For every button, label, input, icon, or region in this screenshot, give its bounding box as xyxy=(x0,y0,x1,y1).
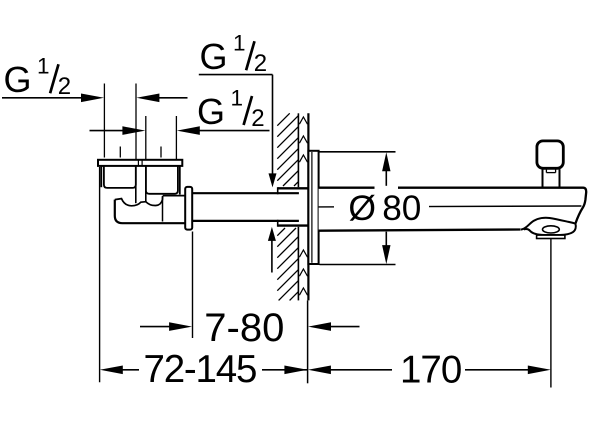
extension line left inlet left edge xyxy=(103,84,105,158)
svg-text:80: 80 xyxy=(382,189,421,228)
sleeve left end caps xyxy=(277,187,279,194)
leader underline G 1/2 top center xyxy=(199,74,273,76)
fitting flange xyxy=(98,160,182,166)
diverter knob stem xyxy=(542,169,544,188)
up arrow at sleeve bottom xyxy=(268,227,276,241)
wall sleeve top edge xyxy=(278,187,308,189)
wall surface extension line (to dimension) xyxy=(307,300,309,383)
dim left inlet: leader line from G 1/2 top left xyxy=(2,97,82,99)
wall xyxy=(277,113,298,300)
svg-text:2: 2 xyxy=(58,73,71,100)
union nut xyxy=(185,187,192,230)
right inlet centerline tick xyxy=(160,147,162,158)
dim left inlet left-pointing arrow xyxy=(136,94,159,103)
dim 7-80 left tail xyxy=(140,326,172,328)
extension line left inlet right edge xyxy=(135,84,137,160)
dim 80 top extension line xyxy=(320,151,396,153)
svg-text:1: 1 xyxy=(233,31,246,56)
fitting upper right cup xyxy=(146,166,178,194)
spout inner taper line xyxy=(319,205,582,208)
dim right inlet left-pointing arrow xyxy=(177,126,200,135)
extension line right inlet left edge xyxy=(145,116,147,160)
svg-text:2: 2 xyxy=(254,50,267,77)
dim 7-80 left-pointing arrow xyxy=(308,322,331,331)
elbow outlet vertical joint xyxy=(162,196,164,221)
svg-text:G: G xyxy=(197,91,225,132)
elbow lower body xyxy=(115,200,185,224)
spout body outline xyxy=(319,188,587,235)
wall tile layer chevrons xyxy=(299,117,307,295)
dim right inlet tail line left xyxy=(90,130,125,132)
escutcheon flange xyxy=(308,151,318,264)
svg-text:1: 1 xyxy=(37,54,50,79)
dim 170 right arrow (pointing right) xyxy=(528,366,551,375)
dim left inlet right-pointing arrow xyxy=(81,94,104,103)
aerator face bar xyxy=(537,235,565,238)
svg-text:Ø: Ø xyxy=(348,188,376,228)
svg-text:72-145: 72-145 xyxy=(144,348,257,391)
svg-text:170: 170 xyxy=(400,349,461,392)
escutcheon inner line xyxy=(311,152,313,263)
svg-text:G: G xyxy=(200,36,228,77)
svg-text:7-80: 7-80 xyxy=(204,306,284,350)
dim 80 bottom extension line xyxy=(320,264,396,266)
up arrow shaft xyxy=(271,239,273,273)
svg-text:G: G xyxy=(4,59,32,100)
dim right inlet right-pointing arrow xyxy=(122,126,145,135)
dim 7-80 right-pointing arrow xyxy=(169,322,192,331)
dim 170 right extension line (aerator centerline) xyxy=(550,239,552,388)
wall front surface line xyxy=(307,113,309,300)
aerator housing outline xyxy=(521,218,576,235)
left inlet centerline tick xyxy=(119,147,121,158)
leader down arrow at sleeve top xyxy=(269,173,277,187)
svg-text:2: 2 xyxy=(251,105,264,132)
dim 80 upper arrow xyxy=(382,152,390,171)
dim 72-145 right segment xyxy=(262,369,308,371)
pipe to wall bottom edge xyxy=(192,220,299,222)
dim 80 lower arrow xyxy=(385,232,387,248)
fitting upper left cup xyxy=(100,166,102,187)
aerator ring ellipse xyxy=(543,226,560,233)
dim right inlet underline of G 1/2 middle xyxy=(198,130,270,132)
fitting center tube xyxy=(135,166,137,203)
dim 7-80 left extension line (nut) xyxy=(192,232,194,339)
wall inner face line xyxy=(297,113,299,187)
diverter knob xyxy=(537,141,563,168)
spout top edge xyxy=(319,188,587,224)
dim 72-145 left extension line xyxy=(99,167,101,382)
spout bottom edge xyxy=(319,230,521,231)
dim 72-145 right arrow (pointing right) xyxy=(284,366,307,375)
dim 170 right segment xyxy=(465,369,529,371)
leader vertical line down to wall connection xyxy=(272,75,274,175)
dim 170 left arrow (pointing left) xyxy=(308,366,331,375)
outlet pipe top edge (elbow to nut) xyxy=(163,195,186,197)
white halo behind diameter text xyxy=(334,196,429,226)
wall sleeve bottom edge xyxy=(278,224,308,226)
dim 7-80 right tail xyxy=(330,326,360,328)
svg-text:1: 1 xyxy=(231,85,244,110)
extension line right inlet right edge xyxy=(175,116,177,160)
elbow wavy collar line xyxy=(115,196,163,206)
dim 72-145 left arrow (pointing left) xyxy=(100,366,123,375)
pipe to wall top edge xyxy=(192,192,299,194)
knob stem notch xyxy=(545,169,547,173)
dim left inlet tail line xyxy=(158,97,188,99)
